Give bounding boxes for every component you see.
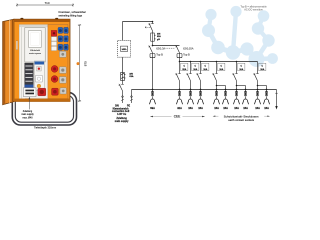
- red CEE socket on middle panel bottom: [38, 88, 46, 96]
- dimension 870 (height, right): [78, 24, 81, 102]
- sub-bus pair 257.5-266.5: [258, 86, 267, 90]
- svg-text:16A: 16A: [234, 106, 239, 110]
- sub-bus pair 236.5-245.5: [237, 86, 246, 90]
- wire: down to kWh meter: [122, 22, 124, 41]
- socket outlet 16A at x=266.5: [266, 89, 268, 91]
- svg-text:16A: 16A: [198, 106, 203, 110]
- lifting lugs: [20, 18, 58, 20]
- svg-text:32A: 32A: [177, 106, 182, 110]
- svg-text:PE: PE: [127, 104, 131, 107]
- terminal labels: [115, 104, 130, 107]
- svg-text:main supply: main supply: [115, 121, 129, 123]
- interior left column: [16, 27, 25, 98]
- svg-text:earth contact sockets: earth contact sockets: [228, 119, 254, 122]
- svg-text:Typ B: Typ B: [156, 52, 163, 56]
- label: connection range: [112, 108, 130, 123]
- MCB 16A at x=190.5: [187, 62, 192, 90]
- svg-text:16A: 16A: [188, 106, 193, 110]
- svg-text:kWh: kWh: [122, 49, 127, 51]
- socket outlet 16A at x=257.5: [257, 89, 259, 91]
- MCB 32A at x=179.5: [176, 62, 181, 90]
- svg-text:Typ B: Typ B: [183, 52, 190, 56]
- svg-text:63/0,03A: 63/0,03A: [183, 47, 194, 51]
- socket outlet 16A at x=190.5: [190, 89, 192, 91]
- svg-text:Kranösen, schwenkbar: Kranösen, schwenkbar: [59, 10, 86, 14]
- socket outlet 16A at x=225.5: [225, 89, 227, 91]
- socket outlet 63A at x=152.5: [152, 89, 154, 91]
- note: Typ B sensitivity: [240, 6, 267, 12]
- svg-text:63A: 63A: [150, 106, 155, 110]
- Schuko range annotation: [213, 115, 269, 117]
- dimension 710 (top width): [16, 3, 74, 6]
- wire: meter to main breaker: [122, 57, 124, 72]
- svg-text:3/N: 3/N: [129, 73, 133, 75]
- input switch: [119, 81, 124, 96]
- MCB 16A at x=200.5: [197, 62, 202, 90]
- svg-text:Tiefe/depth 320mm: Tiefe/depth 320mm: [34, 125, 56, 129]
- meter window (Zaehlerfeld): [25, 28, 45, 62]
- svg-text:main supply: main supply: [21, 114, 34, 116]
- svg-text:Zuleitung: Zuleitung: [23, 110, 33, 113]
- cabinet body: [14, 19, 70, 101]
- main switch block (dark, striped): [25, 63, 34, 88]
- node: main junction: [152, 45, 154, 47]
- disconnect switch (top): [145, 22, 154, 34]
- svg-text:16A: 16A: [255, 106, 260, 110]
- node: feed corner: [152, 21, 154, 23]
- kWh meter (dashed box): [118, 40, 131, 57]
- socket outlet 32A at x=179.5: [179, 89, 181, 91]
- svg-text:63/0,3A: 63/0,3A: [156, 47, 165, 51]
- sub-bus pair 216.5-225.5: [217, 86, 226, 90]
- socket outlet 16A at x=216.5: [216, 89, 218, 91]
- svg-text:max. Ø40: max. Ø40: [23, 117, 34, 119]
- socket outlet 16A at x=236.5: [236, 89, 238, 91]
- PE bus: [132, 89, 277, 91]
- svg-text:63A: 63A: [157, 35, 161, 38]
- svg-text:Zählerfeld: Zählerfeld: [30, 49, 41, 52]
- svg-text:16A: 16A: [243, 106, 248, 110]
- RCD 63/0.03A Typ B: [176, 46, 183, 60]
- red CEE sockets (round): [51, 66, 58, 96]
- RCD 63/0.3A Typ B: [149, 46, 156, 60]
- svg-text:16A: 16A: [219, 68, 223, 71]
- svg-text:32A: 32A: [182, 68, 186, 71]
- svg-text:connection bolt: connection bolt: [112, 110, 130, 113]
- svg-text:16A: 16A: [223, 106, 228, 110]
- svg-text:710: 710: [44, 1, 49, 5]
- svg-text:3/N: 3/N: [115, 104, 119, 107]
- interior right column (orange): [48, 25, 68, 99]
- svg-text:gG: gG: [157, 39, 160, 41]
- small red device: [51, 30, 56, 36]
- terminal clamp PE: [130, 90, 133, 104]
- wire: bus to RCD2: [153, 45, 180, 47]
- stand frame (tubular base): [12, 93, 76, 125]
- MCB 16A at x=216.5: [213, 62, 218, 90]
- svg-text:meter space: meter space: [29, 52, 42, 55]
- SLS / indicator strip: [34, 61, 44, 90]
- svg-text:16A: 16A: [193, 68, 197, 71]
- supply entry box with slots: [23, 88, 36, 97]
- svg-text:Zuleitung: Zuleitung: [116, 117, 127, 120]
- CEE range annotation: [151, 116, 205, 118]
- svg-text:16A: 16A: [214, 106, 219, 110]
- MCB 16A at x=236.5: [233, 62, 238, 90]
- label: lifting lugs: [59, 10, 86, 17]
- wire: top feed horizontal: [123, 21, 153, 23]
- bus after RCD2: [180, 61, 258, 63]
- main fuse: [151, 33, 156, 46]
- svg-text:CEE: CEE: [174, 115, 181, 119]
- svg-text:AC-DC-sensitive: AC-DC-sensitive: [244, 9, 263, 12]
- socket outlet 16A at x=200.5: [200, 89, 202, 91]
- cabinet interior backplate: [19, 25, 68, 99]
- blue CEE sockets (2x3): [58, 27, 68, 50]
- svg-text:16A: 16A: [264, 106, 269, 110]
- PE bus end arrow: [275, 90, 278, 107]
- svg-text:870: 870: [83, 61, 87, 66]
- DIN rail devices (white): [51, 37, 56, 51]
- terminal clamp 3/N: [121, 95, 124, 103]
- svg-text:63A: 63A: [129, 75, 133, 78]
- label: main supply entry: [21, 110, 34, 119]
- socket outlet 16A at x=245.5: [245, 89, 247, 91]
- grey sockets column: [59, 51, 66, 94]
- bus2 junction dots: [179, 61, 238, 63]
- cabinet bottom rail: [14, 99, 70, 102]
- cabinet top rail: [14, 19, 70, 22]
- svg-text:16A: 16A: [239, 68, 243, 71]
- svg-text:swiveling lifting lugs: swiveling lifting lugs: [59, 13, 83, 17]
- cabinet open door (left, perspective): [3, 19, 14, 105]
- svg-text:16A: 16A: [203, 68, 207, 71]
- svg-text:16A: 16A: [260, 68, 264, 71]
- MCB 16A at x=257.5: [254, 62, 259, 90]
- main breaker 63A (input): [121, 72, 126, 80]
- watermark logo: [202, 6, 278, 67]
